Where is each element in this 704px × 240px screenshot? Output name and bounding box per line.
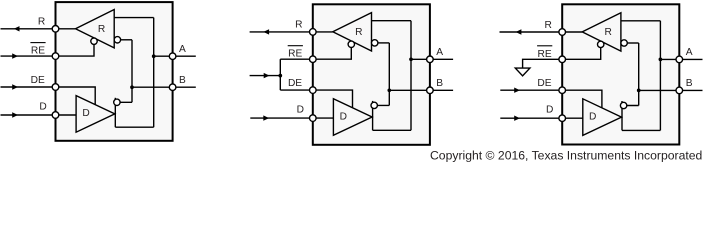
wire: B pin horizontal (block 3) [639, 89, 703, 91]
wire: A pin horizontal (block 2) [411, 58, 453, 60]
wire: A pin horizontal (block 1) [154, 55, 196, 57]
wire: B pin horizontal (block 1) [132, 86, 196, 88]
junction dot on tie bar (block 2) [278, 74, 282, 78]
wire: RE pin to ground (block 3) [523, 44, 601, 68]
svg-text:Copyright © 2016, Texas Instru: Copyright © 2016, Texas Instruments Inco… [430, 148, 702, 162]
svg-text:RE: RE [538, 49, 552, 60]
arrowhead on D input wire (block 2) [263, 115, 269, 120]
svg-text:A: A [436, 47, 443, 58]
svg-text:R: R [545, 20, 552, 31]
svg-text:DE: DE [537, 78, 551, 89]
svg-text:RE: RE [31, 46, 45, 57]
pin DE (block 1) [52, 84, 59, 91]
arrowhead on R output wire (block 3) [516, 29, 522, 34]
svg-text:B: B [179, 75, 186, 86]
receiver triangle R (block 1) [76, 10, 115, 48]
pin D (block 3) [559, 115, 566, 122]
junction dot B net (block 3) [637, 89, 641, 93]
wire: receiver non-inverting input from A net (block 1) [114, 17, 154, 19]
junction dot A net (block 1) [152, 54, 156, 58]
svg-text:R: R [605, 27, 612, 38]
driver triangle D (block 3) [583, 99, 622, 136]
svg-text:DE: DE [288, 78, 302, 89]
wire: driver inverting output to B net (block 3) [622, 105, 639, 107]
arrowhead on shared enable input (block 2) [264, 73, 270, 78]
svg-text:B: B [436, 78, 443, 89]
pin DE (block 3) [559, 87, 566, 94]
driver inverting output bubble (block 3) [620, 102, 626, 108]
receiver inverting input bubble (block 3) [621, 40, 627, 46]
pin D (block 1) [52, 112, 59, 119]
pin B (block 3) [676, 87, 683, 94]
wire: B pin horizontal (block 2) [389, 89, 453, 91]
pin A (block 2) [427, 56, 434, 63]
wire: B net vertical (block 2) [388, 43, 390, 106]
svg-text:D: D [297, 105, 304, 116]
pin RE (block 2) [310, 56, 317, 63]
receiver triangle R (block 3) [582, 13, 621, 51]
wire: R output pin to receiver apex (block 2) [250, 31, 333, 33]
pin B (block 1) [169, 84, 176, 91]
pin D (block 2) [310, 115, 317, 122]
receiver enable bubble (block 2) [348, 41, 354, 47]
arrowhead on DE input wire (block 1) [12, 84, 18, 89]
wire: DE input to driver enable (block 3) [500, 90, 602, 108]
wire: A pin horizontal (block 3) [660, 58, 702, 60]
wire: tie bar joining RE and DE pins (block 2) [279, 59, 281, 90]
wire: shared enable input stub (block 2) [250, 75, 281, 77]
receiver enable bubble (block 1) [91, 38, 97, 44]
pin A (block 3) [676, 56, 683, 63]
pin R (block 2) [310, 29, 317, 36]
wire: R output pin to receiver apex (block 3) [500, 31, 583, 33]
wire: driver inverting output to B net (block 2) [373, 104, 390, 106]
receiver inverting input bubble (block 2) [372, 40, 378, 46]
svg-text:D: D [546, 105, 553, 116]
arrowhead on R output wire (block 1) [14, 26, 20, 31]
wire: driver apex vertical (block 1) [114, 98, 116, 127]
pin R (block 1) [52, 26, 59, 33]
driver inverting output bubble (block 1) [114, 99, 120, 105]
junction dot A net (block 3) [659, 58, 663, 62]
pin B (block 2) [427, 87, 434, 94]
arrowhead on D input wire (block 1) [12, 112, 18, 117]
wire: receiver inverting input to B net (block 3) [624, 42, 639, 44]
svg-text:A: A [686, 47, 693, 58]
wire: D input to driver (block 3) [500, 117, 583, 119]
svg-text:D: D [589, 111, 596, 122]
driver triangle D (block 2) [333, 99, 372, 136]
wire: B net vertical (block 3) [638, 43, 640, 106]
wire: DE pin to driver enable (block 2) [280, 90, 352, 108]
svg-text:D: D [82, 108, 89, 119]
svg-text:R: R [355, 27, 362, 38]
driver inverting output bubble (block 2) [371, 102, 377, 108]
wire: receiver non-inverting input from A net (block 2) [372, 20, 412, 22]
wire: D input to driver (block 2) [250, 117, 333, 119]
transceiver block 3 outline box [562, 4, 679, 144]
svg-text:R: R [295, 20, 302, 31]
wire: receiver inverting input to B net (block 1) [117, 39, 132, 41]
pin A (block 1) [169, 53, 176, 60]
wire: driver apex vertical (block 2) [372, 101, 374, 130]
receiver inverting input bubble (block 1) [114, 37, 120, 43]
wire: R output pin to receiver apex (block 1) [1, 28, 76, 30]
pin DE (block 2) [310, 87, 317, 94]
pin RE (block 3) [559, 56, 566, 63]
wire: driver apex vertical (block 3) [621, 101, 623, 130]
wire: A net vertical (block 1) [153, 18, 155, 128]
arrowhead on RE input wire (block 1) [12, 53, 18, 58]
wire: driver output bottom run to A net (block 3) [622, 129, 660, 131]
svg-text:B: B [686, 78, 693, 89]
arrowhead on R output wire (block 2) [263, 29, 269, 34]
arrowhead on D input wire (block 3) [514, 116, 520, 121]
junction dot B net (block 2) [387, 88, 391, 92]
pin R (block 3) [559, 29, 566, 36]
wire: D input to driver (block 1) [1, 114, 77, 116]
junction dot B net (block 1) [130, 85, 134, 89]
svg-text:D: D [39, 102, 46, 113]
wire: A net vertical (block 2) [410, 21, 412, 131]
driver triangle D (block 1) [76, 96, 115, 133]
svg-text:D: D [340, 111, 347, 122]
receiver enable bubble (block 3) [598, 41, 604, 47]
transceiver block 1 outline box [56, 2, 173, 141]
wire: receiver non-inverting input from A net (block 3) [621, 20, 661, 22]
wire: RE pin to receiver enable bubble (block 2) [280, 44, 351, 59]
arrowhead on DE input wire (block 3) [514, 88, 520, 93]
wire: RE input to receiver enable bubble (block 1) [1, 41, 95, 56]
svg-text:A: A [179, 44, 186, 55]
receiver triangle R (block 2) [333, 13, 372, 51]
wire: driver inverting output to B net (block 1) [115, 101, 132, 103]
wire: receiver inverting input to B net (block 2) [375, 42, 390, 44]
wire: driver output bottom run to A net (block 1) [115, 126, 153, 128]
svg-text:RE: RE [288, 49, 302, 60]
wire: B net vertical (block 1) [131, 40, 133, 103]
transceiver block 2 outline box [313, 4, 430, 145]
ground symbol (block 3) [515, 68, 530, 76]
svg-text:R: R [38, 17, 45, 28]
wire: DE input to driver enable (block 1) [1, 87, 96, 105]
wire: driver output bottom run to A net (block 2) [373, 129, 411, 131]
junction dot A net (block 2) [409, 57, 413, 61]
svg-text:R: R [98, 24, 105, 35]
wire: A net vertical (block 3) [659, 21, 661, 131]
pin RE (block 1) [52, 53, 59, 60]
svg-text:DE: DE [31, 75, 45, 86]
